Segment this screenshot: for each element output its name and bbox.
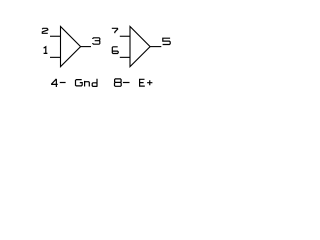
net label Gnd letter G: [76, 80, 83, 86]
wire pin 5 (output): [150, 46, 161, 48]
wire pin 2 (inverting input): [50, 35, 61, 37]
net label Gnd letter d: [92, 79, 97, 87]
pin number 6: [112, 47, 118, 54]
pin number 7: [112, 28, 118, 33]
op-amp U1B triangle (pins 5,6,7): [130, 27, 150, 67]
pin number 2: [42, 28, 48, 33]
net label E+ plus sign: [147, 80, 152, 85]
net label E+ letter E: [140, 79, 145, 86]
wire pin 6 (non-inverting input): [120, 56, 130, 58]
wire pin 7 (inverting input): [120, 35, 130, 37]
pin number 3: [93, 38, 100, 44]
net label Gnd letter n: [85, 81, 90, 87]
wire pin 1 (non-inverting input): [50, 56, 61, 58]
pin 8 annotation digit 8: [115, 79, 122, 86]
pin 4 annotation digit 4: [51, 79, 58, 87]
pin 4 annotation dash: [60, 82, 66, 84]
pin 8 annotation dash: [123, 82, 130, 84]
op-amp U1A triangle (pins 1,2,3): [61, 27, 81, 67]
wire pin 3 (output): [81, 46, 91, 48]
pin number 1: [44, 47, 48, 54]
pin number 5: [163, 38, 171, 44]
